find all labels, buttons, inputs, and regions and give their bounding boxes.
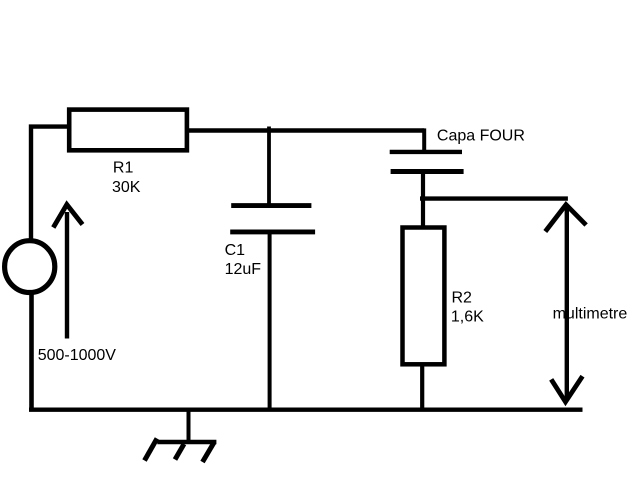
resistor R1	[69, 110, 187, 151]
resistor R2	[403, 228, 445, 365]
svg-text:C1: C1	[225, 242, 246, 259]
voltage source V1	[5, 241, 55, 293]
wire R1 right to Capa FOUR junction	[187, 128, 425, 132]
svg-text:12uF: 12uF	[225, 261, 262, 278]
wire C1 top branch	[267, 127, 271, 208]
svg-text:30K: 30K	[112, 179, 141, 196]
capacitor C1	[230, 206, 315, 232]
label 1,6K	[451, 309, 484, 326]
wire source bottom to rail	[29, 292, 34, 411]
wire junction to multimetre	[420, 196, 568, 200]
label 12uF	[225, 261, 262, 278]
capacitor C2 Capa FOUR	[390, 152, 464, 172]
current arrow at source	[53, 205, 82, 339]
svg-text:Capa FOUR: Capa FOUR	[437, 128, 525, 145]
label 500-1000V	[38, 347, 117, 364]
label R2	[452, 290, 473, 307]
wire top-left elbow from source to R1	[31, 127, 69, 240]
label R1	[113, 160, 134, 177]
svg-text:R1: R1	[113, 160, 134, 177]
label Capa FOUR	[437, 128, 525, 145]
label C1	[225, 242, 246, 259]
svg-text:1,6K: 1,6K	[451, 309, 484, 326]
label multimetre	[553, 305, 628, 322]
svg-text:R2: R2	[452, 290, 473, 307]
wire Capa FOUR bottom to R2	[421, 172, 425, 230]
svg-text:500-1000V: 500-1000V	[38, 347, 117, 364]
multimetre measurement arrow	[545, 205, 586, 402]
ground	[145, 439, 217, 463]
wire stub into Capa FOUR	[422, 128, 426, 153]
svg-text:multimetre: multimetre	[553, 305, 628, 322]
wire R2 bottom to rail	[420, 364, 424, 411]
wire ground stub	[187, 410, 191, 442]
wire C1 bottom to rail	[268, 232, 272, 411]
wire bottom rail	[29, 408, 583, 412]
label 30K	[112, 179, 141, 196]
